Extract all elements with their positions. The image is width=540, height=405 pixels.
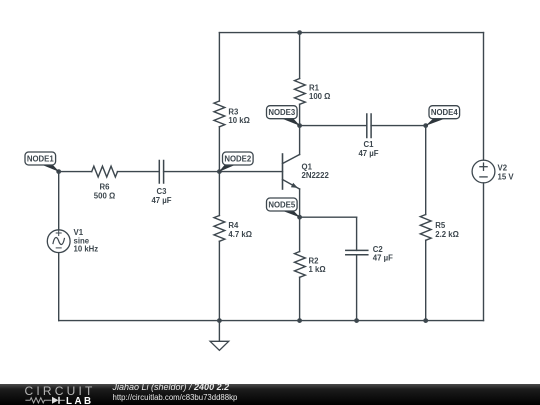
node NODE3 junction dot [297,123,302,128]
capacitor C1 [367,114,371,138]
source V2 minus [480,176,487,178]
node NODE1 junction dot [56,169,61,174]
transistor Q1 emitter diagonal [283,180,300,190]
wire NODE2 to R4 [218,172,220,216]
resistor R1 [295,79,306,105]
svg-text:NODE4: NODE4 [431,108,459,117]
transistor Q1 collector wire [299,126,301,155]
svg-text:R6: R6 [100,183,111,192]
svg-text:R3: R3 [228,107,239,116]
node label NODE4 [425,106,459,126]
node label NODE2 [219,152,253,172]
ground triangle [210,341,229,350]
transistor Q1 emitter arrow [291,183,298,188]
wire V2 bottom lead [483,183,485,321]
svg-text:10 kΩ: 10 kΩ [228,116,249,125]
resistor R5 [420,215,431,241]
transistor Q1 emitter wire [299,189,301,217]
source V2 circle [472,160,495,183]
svg-text:R1: R1 [309,83,320,92]
wire R1 to NODE3 [299,104,301,125]
wire NODE3 to C1 [300,125,367,127]
junction dot top rail [297,30,302,35]
wire V1 bottom lead [58,253,60,321]
wire NODE5 to R2 [299,217,301,251]
svg-text:NODE3: NODE3 [268,108,296,117]
resistor R2 [295,252,306,278]
capacitor C3 [159,161,163,184]
wire top-left vertical to R3 [218,33,220,101]
wire V1 top lead [58,172,60,230]
svg-text:2N2222: 2N2222 [302,171,330,180]
svg-text:C3: C3 [157,187,168,196]
junction dot bus ground [217,318,222,323]
footer logo diode symbol [52,397,59,404]
svg-text:100 Ω: 100 Ω [309,92,330,101]
wire R2 to bottom bus [299,277,301,320]
wire NODE1 to R6 [59,171,92,173]
footer bar [0,384,540,405]
svg-text:NODE1: NODE1 [27,154,55,163]
svg-text:2.2 kΩ: 2.2 kΩ [435,230,459,239]
footer logo resistor wire [25,398,64,403]
svg-text:4.7 kΩ: 4.7 kΩ [228,230,252,239]
svg-text:NODE2: NODE2 [224,154,252,163]
wire bottom bus [59,320,484,322]
ground stem [218,321,220,342]
node label NODE5 [267,198,301,218]
svg-text:15 V: 15 V [498,172,515,181]
svg-text:47 µF: 47 µF [151,196,171,205]
junction dot bus R2 [297,318,302,323]
source V1 minus [56,247,61,249]
svg-text:1 kΩ: 1 kΩ [309,265,326,274]
resistor R3 [214,101,225,127]
svg-text:R2: R2 [309,256,320,265]
wire R6 to C3 [118,171,160,173]
svg-text:http://circuitlab.com/c83bu73d: http://circuitlab.com/c83bu73dd88kp [113,393,238,402]
svg-text:47 µF: 47 µF [358,149,378,158]
resistor R4 [214,216,225,242]
junction dot bus C2 [354,318,359,323]
svg-text:C2: C2 [373,245,384,254]
node NODE2 junction dot [217,169,222,174]
svg-text:NODE5: NODE5 [268,200,296,209]
source V1 sine [53,238,64,245]
svg-text:47 µF: 47 µF [373,254,393,263]
capacitor C2 [346,250,368,254]
svg-text:Jiahao Li (sheldor) / 2400 2.2: Jiahao Li (sheldor) / 2400 2.2 [112,382,230,392]
transistor Q1 collector diagonal [283,155,300,164]
node label NODE1 [25,152,59,172]
svg-text:Q1: Q1 [302,163,313,172]
wire C2 to bottom bus [356,255,358,321]
wire NODE5 to C2 branch horizontal [300,216,357,218]
wire R3 to NODE2 [218,127,220,172]
transistor Q1 base bar [282,154,284,189]
source V1 plus [56,231,61,236]
node label NODE3 [267,106,301,126]
resistor R6 [92,166,118,177]
node NODE5 junction dot [297,215,302,220]
node NODE4 junction dot [423,123,428,128]
wire R5 to bottom bus [425,240,427,320]
wire C2 top lead [356,217,358,250]
wire V2 top lead [483,33,485,161]
wire C3 to Q1 base [164,171,283,173]
wire NODE4 to R5 [425,126,427,215]
svg-text:LAB: LAB [66,396,94,405]
svg-text:500 Ω: 500 Ω [94,191,115,200]
svg-text:C1: C1 [364,140,375,149]
source V2 plus [480,163,487,170]
svg-text:R4: R4 [228,221,239,230]
source V1 circle [47,230,70,253]
svg-text:10 kHz: 10 kHz [74,245,99,254]
wire R4 to bottom bus [218,241,220,320]
wire C1 to NODE4 [371,125,426,127]
svg-text:R5: R5 [435,221,446,230]
wire top rail [219,32,483,34]
junction dot bus R5 [423,318,428,323]
wire top to R1 [299,33,301,79]
